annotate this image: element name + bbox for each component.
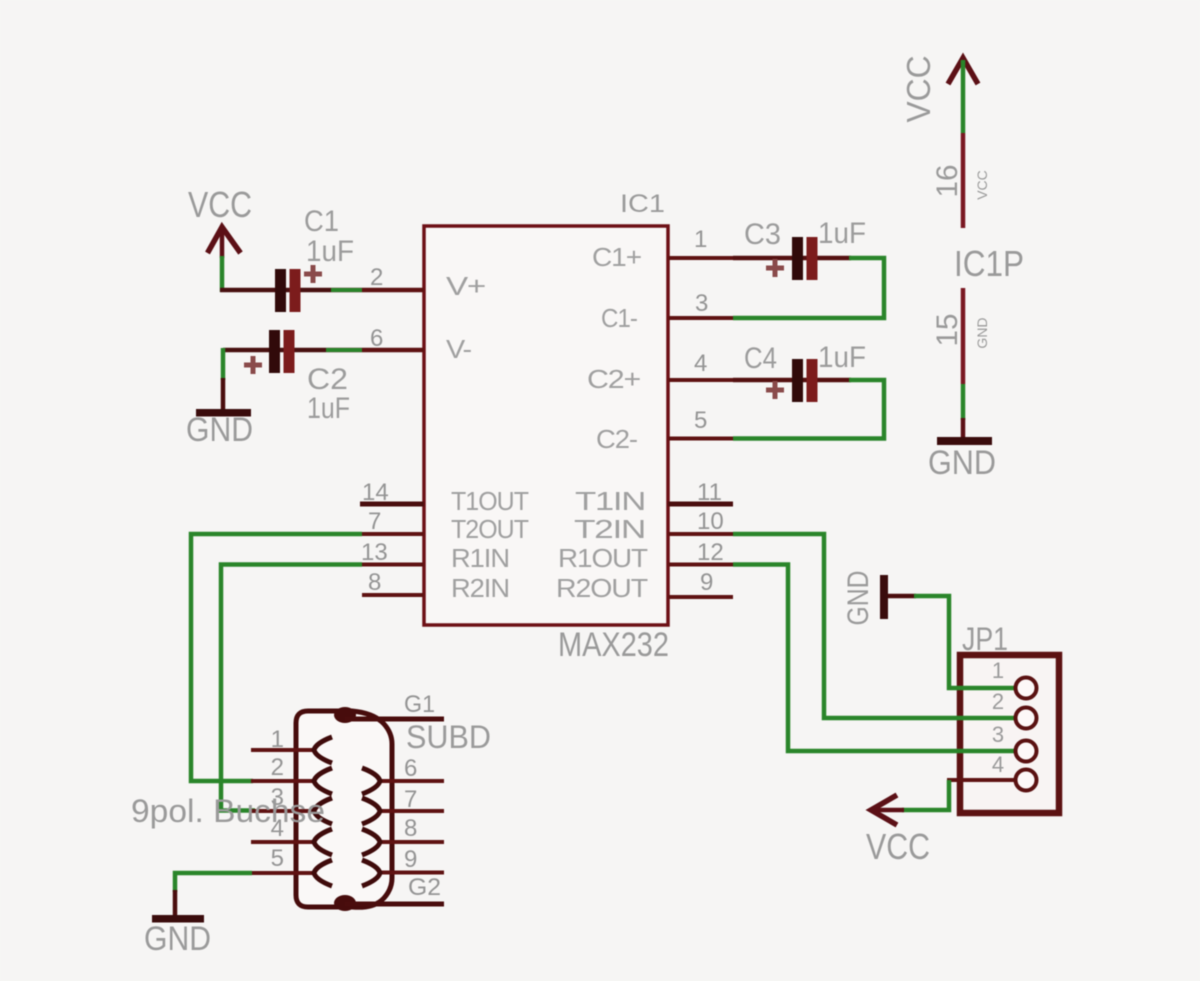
svg-text:T2IN: T2IN: [574, 514, 645, 544]
svg-text:12: 12: [697, 539, 724, 566]
wire R1OUT to JP1 pin3: [733, 565, 1014, 752]
svg-text:C1: C1: [304, 205, 339, 238]
IC1P pin 16: [961, 133, 966, 228]
SUBD contact 4: [314, 829, 332, 855]
svg-text:C1+: C1+: [592, 242, 641, 272]
pin 8 stub: [362, 593, 424, 597]
SUBD contact 8: [362, 829, 380, 855]
SUBD contact 9: [362, 860, 380, 886]
svg-text:2: 2: [992, 689, 1004, 714]
svg-text:C1-: C1-: [601, 303, 637, 333]
svg-text:T1IN: T1IN: [575, 486, 645, 516]
SUBD pin 4: [251, 840, 315, 844]
svg-text:G2: G2: [408, 874, 441, 901]
pin 3 stub: [668, 316, 733, 320]
pin G1: [345, 717, 444, 722]
SUBD contact 2: [314, 768, 332, 794]
svg-text:GND: GND: [842, 571, 875, 626]
svg-text:VCC: VCC: [866, 826, 930, 867]
wire T2IN to JP1 pin2: [733, 534, 1014, 718]
svg-text:6: 6: [370, 325, 383, 352]
wire row C4: [733, 378, 851, 383]
svg-text:5: 5: [694, 407, 707, 434]
power VCC (JP1): [866, 795, 930, 867]
wire C4 loop: [733, 380, 884, 439]
svg-text:GND: GND: [144, 920, 211, 958]
capacitor C1: [275, 205, 354, 312]
svg-text:11: 11: [697, 479, 722, 506]
svg-text:1uF: 1uF: [818, 341, 866, 374]
pin 11 stub: [668, 502, 733, 507]
connector JP1 box: [960, 655, 1059, 813]
SUBD contact 1: [314, 737, 332, 763]
pin 14 stub: [360, 502, 424, 507]
svg-text:3: 3: [695, 290, 708, 317]
svg-text:2: 2: [271, 754, 284, 781]
pin 2 stub: [362, 288, 424, 292]
junction G2: [334, 895, 356, 911]
svg-text:VCC: VCC: [900, 56, 937, 123]
power symbol VCC top-left: [188, 184, 252, 258]
wire VCC stem: [220, 256, 225, 292]
svg-text:V-: V-: [446, 334, 471, 364]
wire T2OUT net: [191, 534, 362, 781]
svg-text:GND: GND: [928, 444, 996, 482]
ground (IC1P): [928, 437, 996, 482]
SUBD pin 2: [251, 779, 315, 783]
SUBD pin 9: [379, 871, 444, 875]
power VCC (IC1P): [900, 56, 978, 123]
svg-text:16: 16: [931, 165, 964, 198]
svg-text:IC1: IC1: [620, 190, 665, 218]
JP1 pad 2: [1016, 708, 1037, 729]
svg-text:R2OUT: R2OUT: [556, 573, 648, 603]
ground (JP1 area): [842, 571, 888, 626]
wire row C3: [733, 256, 851, 261]
wire C2 to GND: [221, 348, 226, 380]
pin 10 stub: [668, 532, 733, 536]
JP1 pad 4: [1016, 770, 1037, 791]
wire row C2: [223, 348, 424, 353]
svg-text:8: 8: [404, 815, 417, 842]
ground (SUBD): [144, 915, 211, 958]
svg-text:C2+: C2+: [587, 364, 640, 394]
pin 9 stub: [668, 595, 733, 599]
svg-text:5: 5: [271, 845, 284, 872]
capacitor C2: [244, 330, 350, 425]
pin 13 stub: [362, 563, 424, 567]
svg-text:2: 2: [370, 264, 383, 291]
svg-text:IC1P: IC1P: [954, 243, 1024, 284]
wire IC1P bottom: [961, 384, 966, 420]
pin 6 stub: [362, 348, 424, 352]
svg-text:R2IN: R2IN: [451, 573, 509, 603]
SUBD contact 7: [362, 798, 380, 824]
svg-text:7: 7: [368, 508, 381, 535]
svg-text:9: 9: [404, 846, 417, 873]
svg-text:VCC: VCC: [974, 170, 990, 200]
junction G1: [334, 707, 356, 723]
svg-text:1: 1: [694, 226, 707, 253]
wire SUBD pin5 to GND: [175, 873, 252, 892]
pin 12 stub: [668, 563, 733, 567]
svg-text:3: 3: [992, 722, 1004, 747]
svg-text:1uF: 1uF: [818, 217, 866, 250]
SUBD contact 5: [314, 860, 332, 886]
svg-text:C3: C3: [744, 218, 781, 251]
wire GND to JP1 pin1: [888, 594, 916, 599]
svg-text:GND: GND: [974, 317, 990, 348]
svg-text:1: 1: [992, 658, 1004, 683]
svg-text:13: 13: [361, 539, 388, 566]
ground GND left: [186, 409, 253, 449]
JP1 pad 1: [1016, 678, 1037, 699]
svg-text:10: 10: [697, 508, 724, 535]
connector G1 SUBD body: [296, 711, 392, 907]
svg-text:GND: GND: [186, 411, 253, 449]
pin 7 stub: [362, 532, 424, 536]
svg-text:15: 15: [931, 314, 964, 347]
SUBD pin 6: [379, 779, 444, 783]
IC1P pin 15: [961, 288, 966, 384]
wire C3 loop: [733, 258, 884, 318]
svg-text:6: 6: [404, 755, 417, 782]
svg-text:R1IN: R1IN: [451, 543, 509, 573]
JP1 pin 1: [947, 686, 1016, 690]
svg-text:C2-: C2-: [596, 424, 637, 454]
wire JP1 pin4 to VCC: [902, 780, 949, 810]
svg-text:G1: G1: [404, 691, 435, 718]
wire R1IN net: [221, 565, 362, 811]
wire green segment C1-IC: [331, 288, 362, 292]
pin 5 stub: [668, 437, 733, 441]
SUBD contact 6: [362, 768, 380, 794]
svg-text:4: 4: [694, 350, 707, 377]
svg-text:MAX232: MAX232: [558, 626, 669, 664]
JP1 pin 4: [947, 778, 1016, 782]
wire IC1P top: [961, 60, 966, 133]
svg-text:V+: V+: [446, 271, 485, 301]
wire green segment C2-IC: [326, 348, 362, 352]
pin G2: [345, 902, 444, 907]
JP1 pad 3: [1016, 741, 1037, 762]
svg-text:7: 7: [404, 786, 417, 813]
SUBD pin 1: [251, 748, 315, 752]
svg-text:8: 8: [368, 569, 381, 596]
svg-text:SUBD: SUBD: [406, 719, 491, 755]
SUBD pin 7: [379, 809, 444, 813]
SUBD contact 3: [314, 798, 332, 824]
JP1 pin 2: [947, 716, 1016, 720]
svg-text:JP1: JP1: [962, 621, 1008, 657]
svg-text:14: 14: [362, 479, 389, 506]
SUBD pin 3: [251, 809, 315, 813]
pin 1 stub: [668, 256, 733, 260]
IC IC1 box: [424, 226, 668, 625]
SUBD pin 8: [379, 840, 444, 844]
svg-text:9: 9: [700, 569, 713, 596]
svg-text:1: 1: [271, 726, 284, 753]
svg-text:C4: C4: [744, 342, 777, 375]
svg-text:T1OUT: T1OUT: [451, 486, 529, 516]
svg-text:VCC: VCC: [188, 184, 252, 225]
svg-text:1uF: 1uF: [306, 235, 354, 268]
pin 4 stub: [668, 378, 733, 382]
SUBD pin 5: [251, 871, 315, 875]
svg-text:1uF: 1uF: [307, 392, 350, 425]
capacitor C3: [744, 217, 866, 280]
svg-text:R1OUT: R1OUT: [558, 543, 648, 573]
svg-text:4: 4: [992, 752, 1004, 777]
JP1 pin 3: [947, 749, 1016, 753]
svg-text:T2OUT: T2OUT: [451, 514, 529, 544]
svg-text:9pol. Buchse: 9pol. Buchse: [131, 793, 325, 829]
capacitor C4: [744, 341, 866, 402]
wire row C1: [220, 288, 424, 293]
